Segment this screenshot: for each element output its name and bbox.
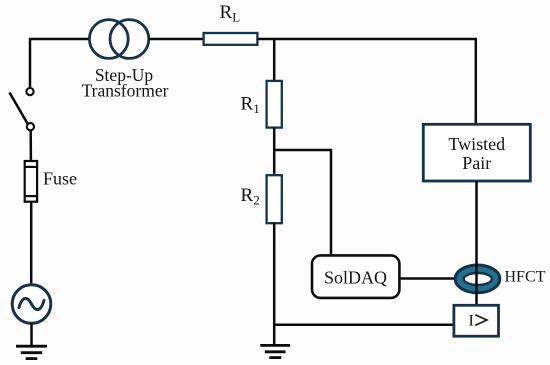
wire fuse to AC source <box>30 202 33 285</box>
ground (left, below AC source) <box>16 346 47 358</box>
resistor R1 <box>267 81 282 128</box>
resistor RL <box>204 33 258 45</box>
svg-text:Twisted: Twisted <box>448 134 505 154</box>
label RL <box>220 2 241 25</box>
label I> <box>469 313 487 330</box>
wire SolDAQ to HFCT <box>399 277 455 280</box>
svg-text:Transformer: Transformer <box>82 81 169 101</box>
svg-text:HFCT: HFCT <box>505 269 546 286</box>
label SolDAQ <box>324 268 387 288</box>
fuse F1 <box>25 161 37 202</box>
wire Twisted Pair through HFCT to relay I> <box>475 181 478 305</box>
svg-text:R1: R1 <box>241 94 260 117</box>
wire R2 down to ground <box>273 223 276 345</box>
label Step-Up Transformer <box>82 65 169 101</box>
svg-text:I: I <box>469 313 474 330</box>
wire R1 to R2 <box>273 128 276 176</box>
wire bottom horizontal to relay I> <box>274 324 454 327</box>
svg-text:Fuse: Fuse <box>43 169 77 189</box>
svg-text:Pair: Pair <box>462 153 491 173</box>
label Fuse <box>43 169 77 189</box>
overcurrent relay I> <box>454 305 499 336</box>
label HFCT <box>505 269 546 286</box>
wire AC source to ground <box>30 323 33 346</box>
svg-text:R2: R2 <box>241 185 260 208</box>
wire transformer to RL <box>149 38 204 41</box>
resistor R2 <box>267 175 282 223</box>
AC source V1 <box>12 285 51 324</box>
block Twisted Pair <box>423 124 530 181</box>
transformer T1 (Step-Up) <box>89 20 148 59</box>
wire switch to fuse <box>29 130 32 161</box>
wire junction to R1 <box>273 39 276 81</box>
wire RL right, along top, down to Twisted Pair <box>257 39 475 124</box>
HFCT current transformer (toroid) <box>455 265 500 293</box>
block SolDAQ <box>312 255 399 298</box>
wire branch junction to SolDAQ <box>274 150 331 255</box>
label Twisted Pair <box>448 134 505 173</box>
svg-text:SolDAQ: SolDAQ <box>324 268 387 288</box>
ground (center bottom) <box>260 345 290 357</box>
label R1 <box>241 94 260 117</box>
wire top-left corner to transformer <box>30 39 90 88</box>
label R2 <box>241 185 260 208</box>
switch S1 (open disconnector) <box>10 88 35 130</box>
svg-text:RL: RL <box>220 2 241 25</box>
